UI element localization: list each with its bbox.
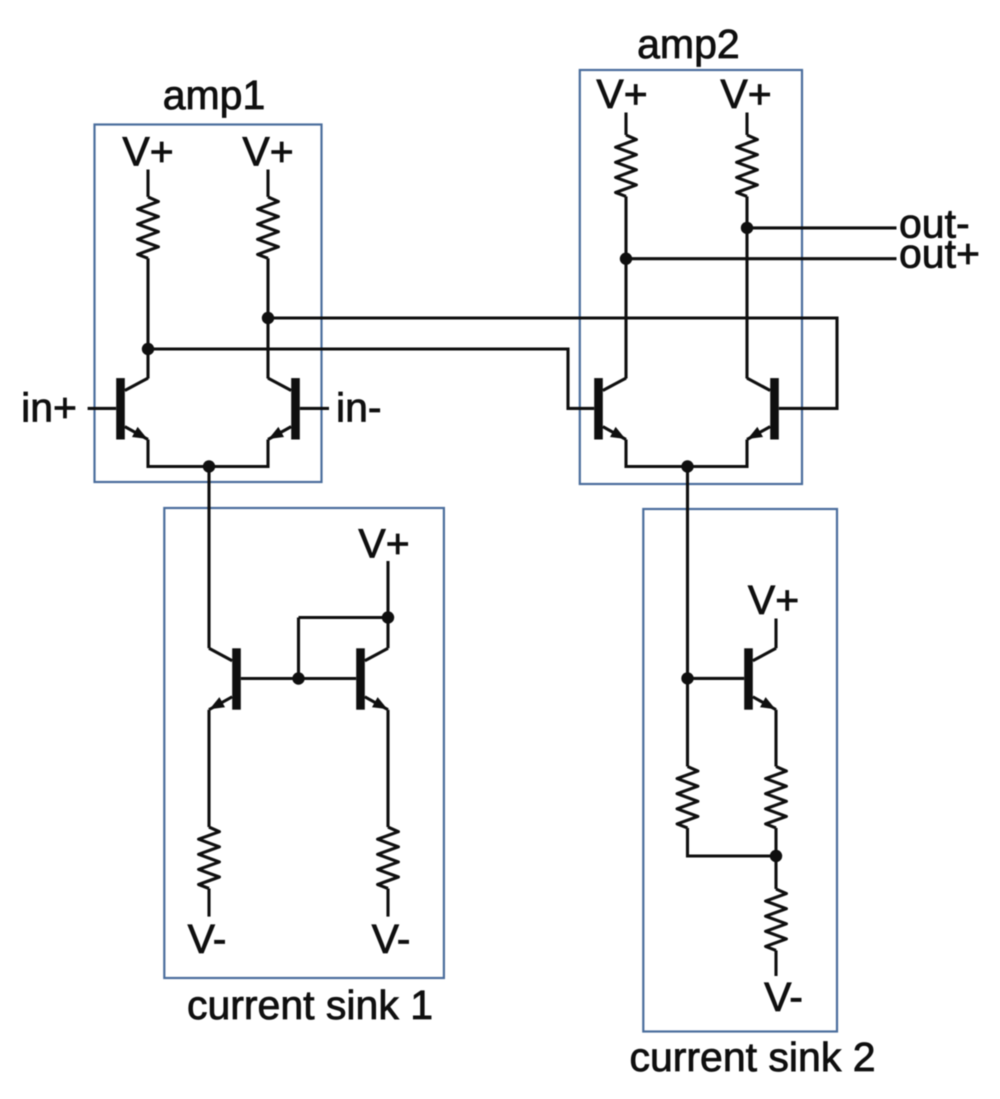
svg-text:out+: out+ <box>899 230 980 276</box>
svg-text:V-: V- <box>188 916 227 962</box>
svg-text:in+: in+ <box>21 385 77 431</box>
svg-text:amp1: amp1 <box>163 72 266 118</box>
svg-text:amp2: amp2 <box>637 21 740 67</box>
svg-text:in-: in- <box>336 385 382 431</box>
svg-text:V+: V+ <box>242 129 293 175</box>
svg-text:V+: V+ <box>122 129 173 175</box>
svg-text:V-: V- <box>764 974 803 1020</box>
svg-text:V+: V+ <box>596 71 647 117</box>
svg-text:V-: V- <box>372 916 411 962</box>
svg-text:current sink 1: current sink 1 <box>187 982 433 1028</box>
svg-text:V+: V+ <box>358 521 409 567</box>
svg-text:V+: V+ <box>748 577 799 623</box>
svg-text:current sink 2: current sink 2 <box>629 1034 875 1080</box>
svg-text:V+: V+ <box>720 71 771 117</box>
